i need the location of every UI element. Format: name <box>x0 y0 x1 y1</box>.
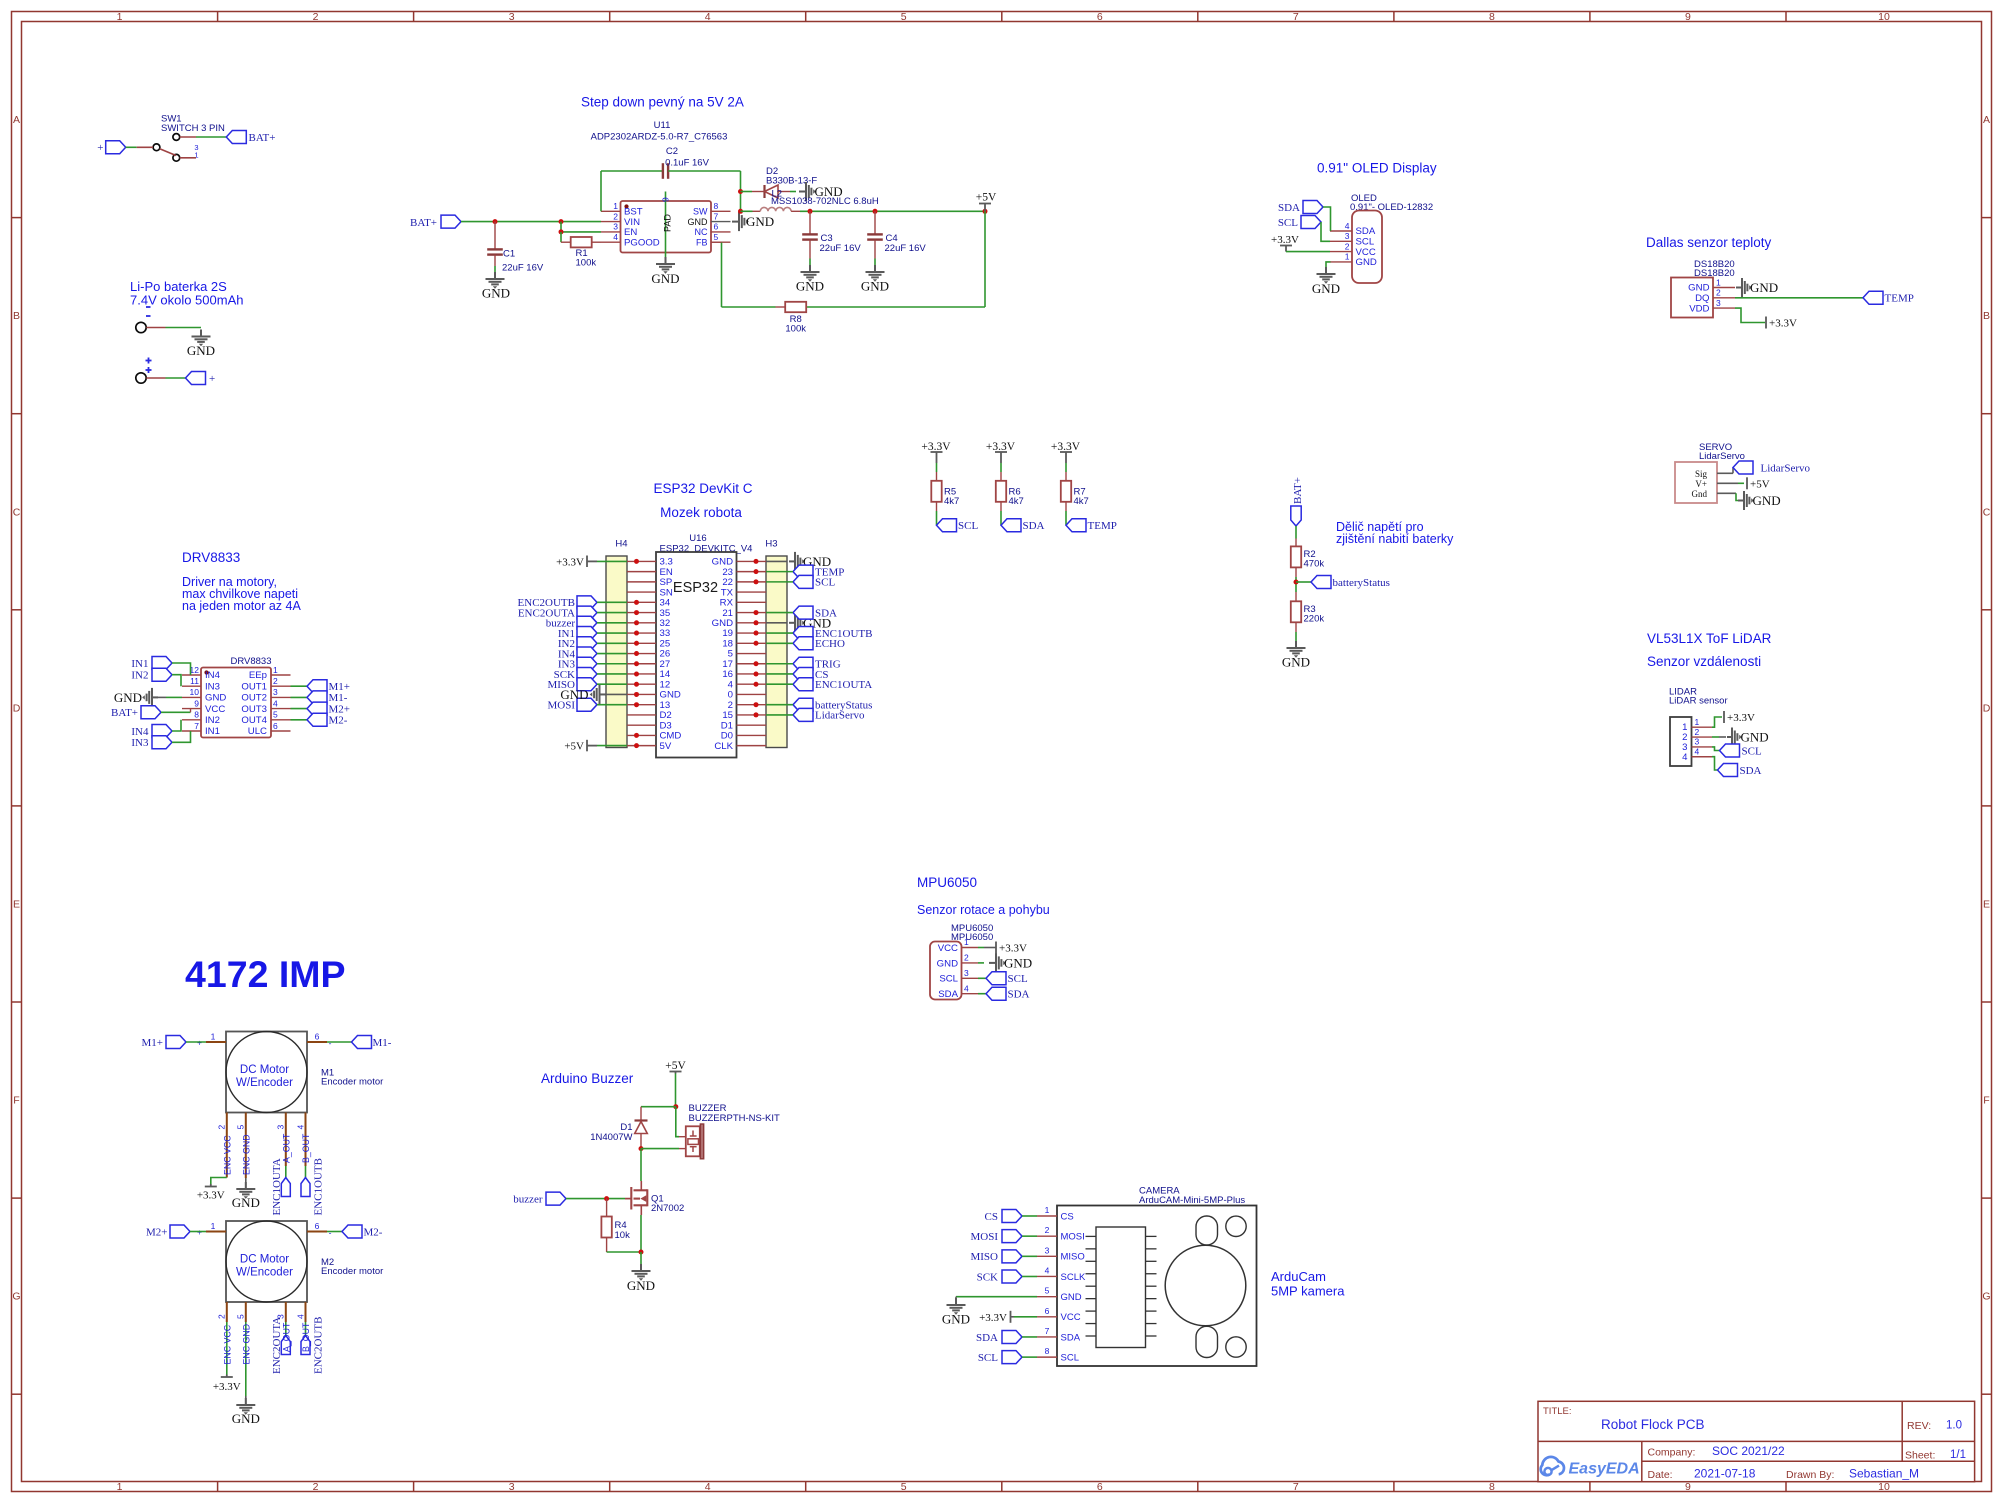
svg-text:2: 2 <box>217 1125 227 1130</box>
svg-text:3: 3 <box>964 968 969 978</box>
power +3.3V at lidar <box>1712 711 1755 727</box>
wire R6 to SDA <box>1000 502 1002 525</box>
ground at C4 <box>861 265 889 294</box>
ESP32 U16 designator <box>660 533 753 555</box>
wire +3.3V to VCC <box>1286 251 1330 253</box>
ESP32 section title <box>653 481 752 520</box>
net flag MISO at camera <box>970 1250 1022 1263</box>
svg-text:Date:: Date: <box>1648 1469 1673 1481</box>
net flag CS at camera <box>985 1210 1022 1223</box>
header H4 <box>606 539 628 748</box>
wire IN1 <box>597 632 627 634</box>
svg-text:GND: GND <box>1282 655 1310 670</box>
svg-text:+: + <box>97 142 103 154</box>
svg-text:DRV8833: DRV8833 <box>182 550 240 565</box>
wire MOSI <box>597 704 627 706</box>
svg-text:SCK: SCK <box>977 1271 998 1283</box>
svg-text:VL53L1X ToF LiDAR: VL53L1X ToF LiDAR <box>1647 631 1772 646</box>
ground at ESP32 left <box>560 685 627 704</box>
svg-text:LidarServo: LidarServo <box>815 710 865 722</box>
svg-text:1.0: 1.0 <box>1946 1420 1962 1432</box>
svg-text:SCL: SCL <box>815 577 835 589</box>
svg-text:H4: H4 <box>615 539 627 550</box>
svg-text:SCL: SCL <box>978 1352 998 1364</box>
wire R4 to source node <box>607 1215 644 1255</box>
wire +3.3V to R7 <box>1065 463 1067 481</box>
wire TRIG <box>766 663 793 665</box>
ESP32 junction dots <box>634 559 759 748</box>
camera hole bottom <box>1226 1337 1246 1357</box>
svg-text:IN1: IN1 <box>131 658 148 670</box>
net flag ENC2OUTB <box>301 1317 325 1374</box>
header H3 <box>765 539 787 748</box>
net flag ENC1OUTB <box>301 1158 325 1215</box>
svg-text:SOC 2021/22: SOC 2021/22 <box>1712 1444 1785 1458</box>
svg-text:SDA: SDA <box>1740 765 1762 777</box>
svg-text:IN2: IN2 <box>205 715 220 726</box>
svg-text:NC: NC <box>695 227 708 237</box>
svg-text:GND: GND <box>232 1195 260 1210</box>
motor M1 pin 6 <box>307 1032 332 1048</box>
power +5V at ESP32 <box>564 740 627 753</box>
net flag SDA at OLED <box>1278 201 1323 214</box>
svg-text:C2: C2 <box>666 146 678 157</box>
svg-text:SDA: SDA <box>815 607 837 619</box>
net flag BAT+ at driver <box>111 706 161 719</box>
svg-text:B330B-13-F: B330B-13-F <box>766 176 817 187</box>
wire +3.3V to R5 <box>936 463 938 481</box>
servo body <box>1675 462 1717 503</box>
svg-text:ENC2OUTB: ENC2OUTB <box>313 1317 325 1374</box>
svg-text:2021-07-18: 2021-07-18 <box>1694 1467 1756 1481</box>
ground at C1 <box>482 272 510 301</box>
svg-text:M1-: M1- <box>329 692 348 704</box>
inductor L2 <box>741 189 879 212</box>
svg-text:SWITCH 3 PIN: SWITCH 3 PIN <box>161 123 225 134</box>
ground at lidar <box>1712 728 1769 747</box>
ground at buzzer <box>627 1264 655 1293</box>
net flag IN3 at driver <box>131 736 172 749</box>
svg-text:1: 1 <box>211 1032 216 1042</box>
net flag TEMP at ESP32 <box>793 565 844 578</box>
svg-text:Sebastian_M: Sebastian_M <box>1849 1467 1919 1481</box>
svg-text:GND: GND <box>688 217 709 227</box>
net flag SDA at R6 <box>1001 519 1045 533</box>
wire SCL <box>766 581 793 583</box>
svg-text:W/Encoder: W/Encoder <box>236 1267 293 1279</box>
svg-text:GND: GND <box>1741 730 1769 745</box>
wire MOSI at camera <box>1022 1235 1037 1237</box>
wire ECHO <box>766 642 793 644</box>
wire D1 to buzzer pin2 <box>639 1146 686 1151</box>
svg-text:Encoder motor: Encoder motor <box>321 1266 383 1277</box>
svg-text:BAT+: BAT+ <box>111 707 138 719</box>
wire IN4 <box>597 653 627 655</box>
svg-text:6: 6 <box>1045 1306 1050 1316</box>
svg-text:G: G <box>12 1291 20 1303</box>
svg-text:V+: V+ <box>1695 479 1707 489</box>
net flag M2- at driver <box>307 713 348 726</box>
svg-text:100k: 100k <box>576 258 597 269</box>
svg-text:7: 7 <box>1293 1481 1299 1493</box>
wire M2 ENC GND <box>245 1322 247 1404</box>
camera hole top <box>1226 1216 1246 1236</box>
net flag SDA at ESP32 <box>793 606 837 619</box>
svg-text:1: 1 <box>1345 252 1350 262</box>
power +5V step-down output <box>976 192 997 212</box>
wire IN3 <box>172 731 191 742</box>
svg-text:SDA: SDA <box>1061 1332 1081 1343</box>
svg-text:SCL: SCL <box>958 520 978 532</box>
ground at servo <box>1736 491 1781 510</box>
svg-text:+3.3V: +3.3V <box>1727 712 1755 724</box>
svg-text:G: G <box>1982 1291 1990 1303</box>
svg-text:DC Motor: DC Motor <box>240 1254 289 1266</box>
svg-text:EasyEDA: EasyEDA <box>1569 1461 1640 1478</box>
svg-text:VDD: VDD <box>1689 303 1709 314</box>
net flag M1+ at driver <box>307 680 350 693</box>
net flag BAT+ step-down input <box>410 215 461 229</box>
EasyEDA logo <box>1541 1457 1640 1478</box>
svg-text:OUT2: OUT2 <box>241 693 267 704</box>
svg-text:4k7: 4k7 <box>1009 496 1024 507</box>
wire +5V down <box>673 1074 678 1110</box>
svg-text:10: 10 <box>1878 11 1890 23</box>
wire SCK <box>597 673 627 675</box>
svg-text:1: 1 <box>117 1481 123 1493</box>
svg-text:MSS1038-702NLC 6.8uH: MSS1038-702NLC 6.8uH <box>771 196 879 207</box>
wire +5V to buzzer pin1 <box>676 1107 686 1137</box>
svg-text:1: 1 <box>1716 277 1721 287</box>
svg-text:+5V: +5V <box>564 741 584 753</box>
motor M1 pin 1 <box>197 1032 226 1048</box>
net flag + at SW1 <box>97 141 125 154</box>
net flag buzzer <box>513 1192 566 1205</box>
svg-text:6: 6 <box>1097 1481 1103 1493</box>
svg-text:ArduCam: ArduCam <box>1271 1269 1326 1284</box>
svg-text:SW: SW <box>693 207 708 217</box>
svg-text:Arduino Buzzer: Arduino Buzzer <box>541 1071 634 1086</box>
wire OUT to M2- <box>291 719 308 721</box>
wire to R1 <box>561 232 571 242</box>
svg-text:B_OUT: B_OUT <box>301 1133 311 1163</box>
net flag ENC1OUTB at ESP32 <box>793 627 872 640</box>
svg-text:EEp: EEp <box>249 670 267 681</box>
svg-text:B_OUT: B_OUT <box>301 1322 311 1352</box>
title block <box>1538 1401 1975 1481</box>
wire M2 ENC VCC to +3.3V <box>226 1322 228 1375</box>
pin 9 PAD of U11 <box>661 192 673 258</box>
svg-text:5V: 5V <box>660 741 672 752</box>
net flag M1- at driver <box>307 691 348 704</box>
svg-text:2: 2 <box>1045 1225 1050 1235</box>
svg-text:VCC: VCC <box>1061 1312 1081 1323</box>
capacitor C1 <box>487 222 544 274</box>
svg-text:+5V: +5V <box>665 1060 686 1072</box>
motor M2 labels <box>321 1257 383 1277</box>
wire ENC2OUTA <box>597 612 627 614</box>
wire +3.3V to R6 <box>1000 463 1002 481</box>
svg-text:SDA: SDA <box>976 1332 998 1344</box>
svg-text:6: 6 <box>1097 11 1103 23</box>
svg-text:+: + <box>209 373 215 385</box>
wire IN2 <box>172 675 181 687</box>
svg-text:ECHO: ECHO <box>815 638 845 650</box>
svg-text:GND: GND <box>942 1312 970 1327</box>
svg-text:SCL: SCL <box>939 974 958 985</box>
power +3.3V at R5 <box>921 441 951 463</box>
wire SDA <box>766 612 793 614</box>
wire ENC1OUTB <box>766 632 793 634</box>
wire OUT to M1- <box>291 696 308 698</box>
wire MISO at camera <box>1022 1255 1037 1257</box>
svg-text:SCL: SCL <box>1278 217 1298 229</box>
svg-text:GND: GND <box>1356 257 1377 268</box>
wire OUT to M2+ <box>291 708 308 710</box>
regulator U11 designator <box>591 120 728 143</box>
svg-text:MOSI: MOSI <box>1061 1232 1085 1243</box>
svg-text:+3.3V: +3.3V <box>197 1190 225 1202</box>
svg-text:5: 5 <box>273 710 278 720</box>
wire M2 B_OUT <box>305 1322 307 1336</box>
svg-text:GND: GND <box>627 1278 655 1293</box>
wire CS at camera <box>1022 1215 1037 1217</box>
svg-text:FB: FB <box>696 237 708 247</box>
svg-text:ENC VCC: ENC VCC <box>222 1135 232 1175</box>
camera inner header <box>1096 1227 1146 1348</box>
svg-text:0.91" OLED Display: 0.91" OLED Display <box>1317 161 1437 176</box>
svg-text:GND: GND <box>232 1411 260 1426</box>
svg-text:VCC: VCC <box>205 704 225 715</box>
svg-text:8: 8 <box>194 710 199 720</box>
svg-text:9: 9 <box>194 698 199 708</box>
svg-text:10: 10 <box>1878 1481 1890 1493</box>
svg-text:MISO: MISO <box>1061 1252 1085 1263</box>
svg-text:MPU6050: MPU6050 <box>917 875 977 890</box>
MPU6050 section title <box>917 875 1050 917</box>
svg-text:B: B <box>13 310 20 322</box>
svg-text:22uF 16V: 22uF 16V <box>820 243 862 254</box>
net flag buzzer at ESP32 <box>546 616 597 629</box>
svg-text:OUT4: OUT4 <box>241 715 267 726</box>
svg-text:Dallas senzor teploty: Dallas senzor teploty <box>1646 235 1772 250</box>
svg-text:8: 8 <box>1489 1481 1495 1493</box>
svg-text:ENC1OUTA: ENC1OUTA <box>815 679 872 691</box>
net flag LidarServo at servo <box>1733 461 1810 475</box>
DRV8833 annotation <box>182 575 301 613</box>
wire BAT+ rail <box>461 219 601 224</box>
wire node to D1 <box>641 1106 676 1108</box>
svg-text:3: 3 <box>613 222 618 232</box>
ground at DS18B20 pin1 <box>1736 278 1778 297</box>
svg-text:5: 5 <box>714 232 719 242</box>
svg-text:1: 1 <box>613 201 618 211</box>
net flag BAT+ at divider <box>1291 477 1304 526</box>
svg-text:7: 7 <box>194 721 199 731</box>
svg-text:4: 4 <box>613 232 618 242</box>
svg-text:SDA: SDA <box>938 989 958 1000</box>
net flag M2- <box>342 1225 383 1238</box>
sensor U DS18B20 body <box>1671 278 1713 318</box>
wire M2 A_OUT <box>285 1322 287 1336</box>
svg-text:ArduCAM-Mini-5MP-Plus: ArduCAM-Mini-5MP-Plus <box>1139 1195 1245 1206</box>
wire buzzer to gate <box>566 1196 631 1201</box>
svg-text:1: 1 <box>1045 1205 1050 1215</box>
divider annotation <box>1336 520 1454 546</box>
power +3.3V at MPU6050 <box>978 942 1027 955</box>
svg-text:1: 1 <box>117 11 123 23</box>
svg-text:F: F <box>13 1095 19 1107</box>
svg-text:U16: U16 <box>689 533 706 544</box>
net flag SCK at ESP32 <box>554 667 597 680</box>
net flag SCL at camera <box>978 1351 1022 1364</box>
svg-text:10: 10 <box>190 687 200 697</box>
svg-text:1/1: 1/1 <box>1950 1449 1966 1461</box>
svg-text:8: 8 <box>1489 11 1495 23</box>
DS18B20 designator <box>1694 259 1735 279</box>
wire battery plus to + flag <box>146 377 185 379</box>
wire BAT+ to R2 <box>1295 526 1297 546</box>
ground at OLED <box>1312 267 1340 296</box>
svg-text:A: A <box>13 114 20 126</box>
wire M1 ENC VCC to +3.3V <box>211 1178 227 1185</box>
resistor R5 <box>931 481 959 507</box>
net flag IN2 at driver <box>131 668 172 681</box>
svg-text:GND: GND <box>1004 956 1032 971</box>
svg-text:SDA: SDA <box>1278 202 1300 214</box>
power +3.3V at OLED <box>1271 234 1299 252</box>
net flag M2+ at driver <box>307 702 350 715</box>
regulator U11 body <box>621 201 712 253</box>
svg-text:470k: 470k <box>1304 559 1325 570</box>
svg-text:1: 1 <box>273 665 278 675</box>
svg-text:OUT3: OUT3 <box>241 704 267 715</box>
svg-text:5: 5 <box>1045 1286 1050 1296</box>
wire VDD to +3.3V <box>1735 308 1765 322</box>
power +3.3V at DS18B20 <box>1766 317 1797 330</box>
lidar body <box>1670 717 1692 766</box>
wire SCL to pin3 <box>1321 222 1330 241</box>
svg-text:IN2: IN2 <box>131 670 148 682</box>
wire SCL at camera <box>1022 1356 1037 1358</box>
resistor R7 <box>1061 481 1089 507</box>
svg-text:B: B <box>1983 310 1990 322</box>
svg-text:A: A <box>1983 114 1990 126</box>
OLED designator <box>1350 193 1433 213</box>
svg-text:BAT+: BAT+ <box>249 132 276 144</box>
net flag MOSI at ESP32 <box>547 698 597 711</box>
svg-text:GND: GND <box>861 279 889 294</box>
svg-text:GND: GND <box>796 279 824 294</box>
svg-text:4: 4 <box>295 1125 305 1130</box>
svg-text:8: 8 <box>714 201 719 211</box>
power +3.3V at M1 <box>197 1184 225 1202</box>
svg-text:M1+: M1+ <box>142 1037 163 1049</box>
svg-text:GND: GND <box>1750 280 1778 295</box>
svg-text:6: 6 <box>315 1032 320 1042</box>
svg-text:BAT+: BAT+ <box>410 217 437 229</box>
net flag TEMP at R7 <box>1066 519 1117 533</box>
svg-text:REV:: REV: <box>1907 1420 1931 1432</box>
svg-text:+3.3V: +3.3V <box>556 557 584 569</box>
svg-text:F: F <box>1983 1095 1989 1107</box>
svg-text:4k7: 4k7 <box>1074 496 1089 507</box>
svg-text:Step down pevný na 5V 2A: Step down pevný na 5V 2A <box>581 95 744 110</box>
svg-text:C: C <box>13 506 21 518</box>
ground at ESP32 right pin GND 2 <box>766 613 831 632</box>
svg-text:GND: GND <box>651 271 679 286</box>
net flag SCL at lidar <box>1712 744 1762 758</box>
wire R8 to FB <box>711 242 776 307</box>
svg-text:GND: GND <box>1312 281 1340 296</box>
svg-text:SCLK: SCLK <box>1061 1272 1086 1283</box>
svg-text:A_OUT: A_OUT <box>281 1133 291 1163</box>
svg-text:VCC: VCC <box>938 943 958 954</box>
net flag IN4 at ESP32 <box>558 647 597 660</box>
svg-text:W/Encoder: W/Encoder <box>236 1077 293 1089</box>
svg-text:U11: U11 <box>654 120 671 131</box>
switch SW1 <box>153 114 225 162</box>
svg-text:5: 5 <box>901 1481 907 1493</box>
wire MISO <box>597 683 627 685</box>
net flag MISO at ESP32 <box>547 678 597 691</box>
wire to GND at buzzer <box>640 1252 642 1264</box>
driver U DRV8833 body <box>201 668 271 738</box>
svg-text:7: 7 <box>1293 11 1299 23</box>
svg-text:4: 4 <box>273 698 278 708</box>
svg-text:TITLE:: TITLE: <box>1543 1406 1572 1417</box>
wire M1- <box>327 1041 352 1043</box>
net flag SCL at ESP32 <box>793 575 835 588</box>
net flag ENC2OUTA <box>271 1317 290 1374</box>
svg-text:10k: 10k <box>615 1230 631 1241</box>
svg-text:2: 2 <box>613 211 618 221</box>
net flag M1- <box>352 1036 392 1049</box>
svg-text:GND: GND <box>1061 1292 1082 1303</box>
motor M1 labels <box>321 1068 383 1088</box>
svg-text:Robot Flock PCB: Robot Flock PCB <box>1601 1417 1705 1432</box>
svg-text:4: 4 <box>1682 752 1688 763</box>
svg-text:9: 9 <box>661 197 671 202</box>
svg-text:IN3: IN3 <box>205 681 220 692</box>
buzzer component body <box>686 1124 704 1159</box>
svg-text:7: 7 <box>714 211 719 221</box>
svg-text:Sheet:: Sheet: <box>1905 1450 1935 1462</box>
svg-text:6: 6 <box>714 222 719 232</box>
motor M2 pin 1 <box>197 1221 226 1237</box>
capacitor C2 <box>601 146 741 211</box>
svg-text:M2+: M2+ <box>329 703 350 715</box>
diode D2 <box>741 166 818 198</box>
wire R3 to GND <box>1295 622 1297 645</box>
svg-text:4172 IMP: 4172 IMP <box>185 953 346 995</box>
net flag SCK at camera <box>977 1270 1022 1283</box>
net flag ENC1OUTA at ESP32 <box>793 678 872 691</box>
wire OUT to M1+ <box>291 685 308 687</box>
net flag IN2 at ESP32 <box>558 637 597 650</box>
svg-text:4: 4 <box>1695 746 1700 756</box>
ground at ESP32 right pin GND <box>766 552 831 571</box>
net flag SDA at lidar <box>1712 757 1762 777</box>
svg-text:C1: C1 <box>503 249 515 260</box>
svg-text:LidarServo: LidarServo <box>1699 451 1745 462</box>
wire R7 to TEMP <box>1065 502 1067 525</box>
svg-text:A_OUT: A_OUT <box>281 1322 291 1352</box>
svg-text:M1+: M1+ <box>329 681 350 693</box>
svg-text:ADP2302ARDZ-5.0-R7_C76563: ADP2302ARDZ-5.0-R7_C76563 <box>591 132 728 143</box>
resistor R1 <box>571 237 597 269</box>
svg-text:+3.3V: +3.3V <box>999 943 1027 955</box>
